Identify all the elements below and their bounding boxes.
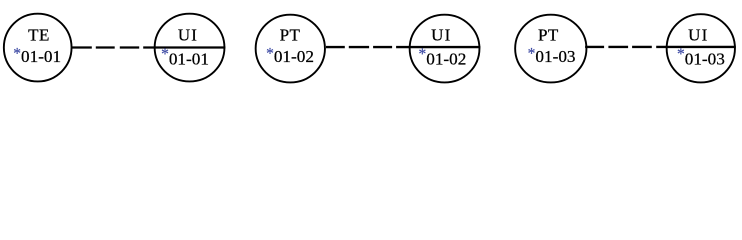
svg-text:PT: PT <box>280 26 301 45</box>
wire dashed signal PT *01-03 to UI *01-03 <box>585 46 652 48</box>
svg-text:TE: TE <box>28 26 50 45</box>
svg-text:UI: UI <box>431 26 451 45</box>
wire dashed signal PT *01-02 to UI *01-02 <box>326 46 393 48</box>
wire horizontal mid-line of UI *01-03 <box>656 46 736 48</box>
svg-text:*01-03: *01-03 <box>528 45 576 66</box>
svg-text:*01-02: *01-02 <box>418 46 466 69</box>
svg-text:*01-01: *01-01 <box>161 46 209 69</box>
instrument bubble UI *01-02 (shared display indicator) <box>410 15 480 83</box>
instrument bubble PT *01-03 (pressure transmitter) <box>515 15 586 83</box>
svg-text:*01-02: *01-02 <box>266 45 314 66</box>
svg-text:PT: PT <box>538 26 559 45</box>
wire dashed signal TE *01-01 to UI *01-01 <box>72 46 140 48</box>
wire horizontal mid-line of UI *01-01 <box>143 46 225 48</box>
svg-text:*01-03: *01-03 <box>677 46 725 69</box>
svg-text:UI: UI <box>178 26 198 45</box>
svg-text:*01-01: *01-01 <box>13 45 61 66</box>
instrument bubble UI *01-01 (shared display indicator) <box>155 14 225 82</box>
svg-text:UI: UI <box>688 26 708 45</box>
instrument bubble PT *01-02 (pressure transmitter) <box>256 15 325 83</box>
wire horizontal mid-line of UI *01-02 <box>396 46 480 48</box>
instrument bubble TE *01-01 (temperature element) <box>4 14 72 82</box>
instrument bubble UI *01-03 (shared display indicator) <box>667 14 735 82</box>
